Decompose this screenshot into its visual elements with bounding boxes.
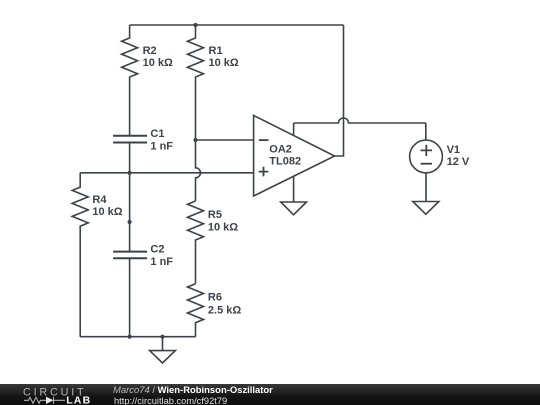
node junction top of R1 (193, 23, 197, 27)
wire C1 bottom lead (129, 143, 131, 173)
svg-text:R1: R1 (209, 45, 223, 57)
resistor R1 (188, 25, 204, 140)
resistor R2 (122, 25, 138, 136)
svg-text:C2: C2 (150, 244, 164, 256)
wire non-inverting input rail (80, 172, 253, 174)
resistor R5 (188, 201, 204, 284)
svg-text:C1: C1 (150, 128, 164, 140)
node junction C1 / mid wire (128, 171, 132, 175)
wire V1 top lead (425, 123, 427, 140)
node junction on C2 branch (128, 220, 132, 224)
wire inverting input (196, 139, 254, 141)
svg-text:LAB: LAB (66, 395, 91, 405)
svg-text:V1: V1 (447, 144, 460, 156)
footer bar (0, 384, 540, 405)
svg-text:TL082: TL082 (269, 155, 301, 167)
svg-text:10 kΩ: 10 kΩ (92, 206, 122, 218)
svg-text:2.5 kΩ: 2.5 kΩ (208, 304, 241, 316)
svg-text:1 nF: 1 nF (150, 141, 173, 153)
svg-text:R5: R5 (208, 209, 222, 221)
capacitor C1 (113, 136, 147, 143)
wire op-amp V+ pin (293, 123, 295, 136)
node junction C2 / bottom rail (128, 335, 132, 339)
svg-text:R2: R2 (143, 45, 157, 57)
svg-text:R4: R4 (92, 194, 107, 206)
footer credit line (113, 385, 273, 396)
op-amp OA2 (254, 115, 335, 196)
voltage source V1 (410, 140, 443, 173)
wire C2 bottom lead (129, 258, 131, 337)
wire bottom rail (80, 336, 195, 338)
capacitor C2 (113, 252, 147, 259)
svg-text:OA2: OA2 (269, 144, 292, 156)
wire op-amp V- pin (293, 176, 295, 202)
svg-text:10 kΩ: 10 kΩ (208, 222, 238, 234)
wire V1 bottom lead (425, 173, 427, 202)
wire top rail (130, 24, 344, 26)
svg-text:R6: R6 (208, 291, 222, 303)
ground op-amp (281, 202, 307, 215)
node junction R1 bottom / inverting input (193, 138, 197, 142)
CircuitLab logo (0, 384, 110, 405)
resistor R4 (72, 173, 88, 337)
ground V1 (413, 202, 439, 215)
svg-text:10 kΩ: 10 kΩ (209, 57, 239, 69)
node junction ground / bottom rail (160, 335, 164, 339)
resistor R6 (188, 284, 204, 337)
svg-text:12 V: 12 V (447, 156, 470, 168)
svg-text:1 nF: 1 nF (150, 256, 173, 268)
wire mid vertical with hop over input rail (R1 to R5, crossing) (196, 140, 201, 201)
svg-text:10 kΩ: 10 kΩ (143, 57, 173, 69)
wire op-amp output and feedback (335, 25, 344, 156)
footer url line (114, 396, 227, 405)
ground bottom (150, 337, 176, 363)
wire C branch down to C2 (129, 173, 131, 252)
wire supply rail with hop over feedback (294, 118, 426, 123)
